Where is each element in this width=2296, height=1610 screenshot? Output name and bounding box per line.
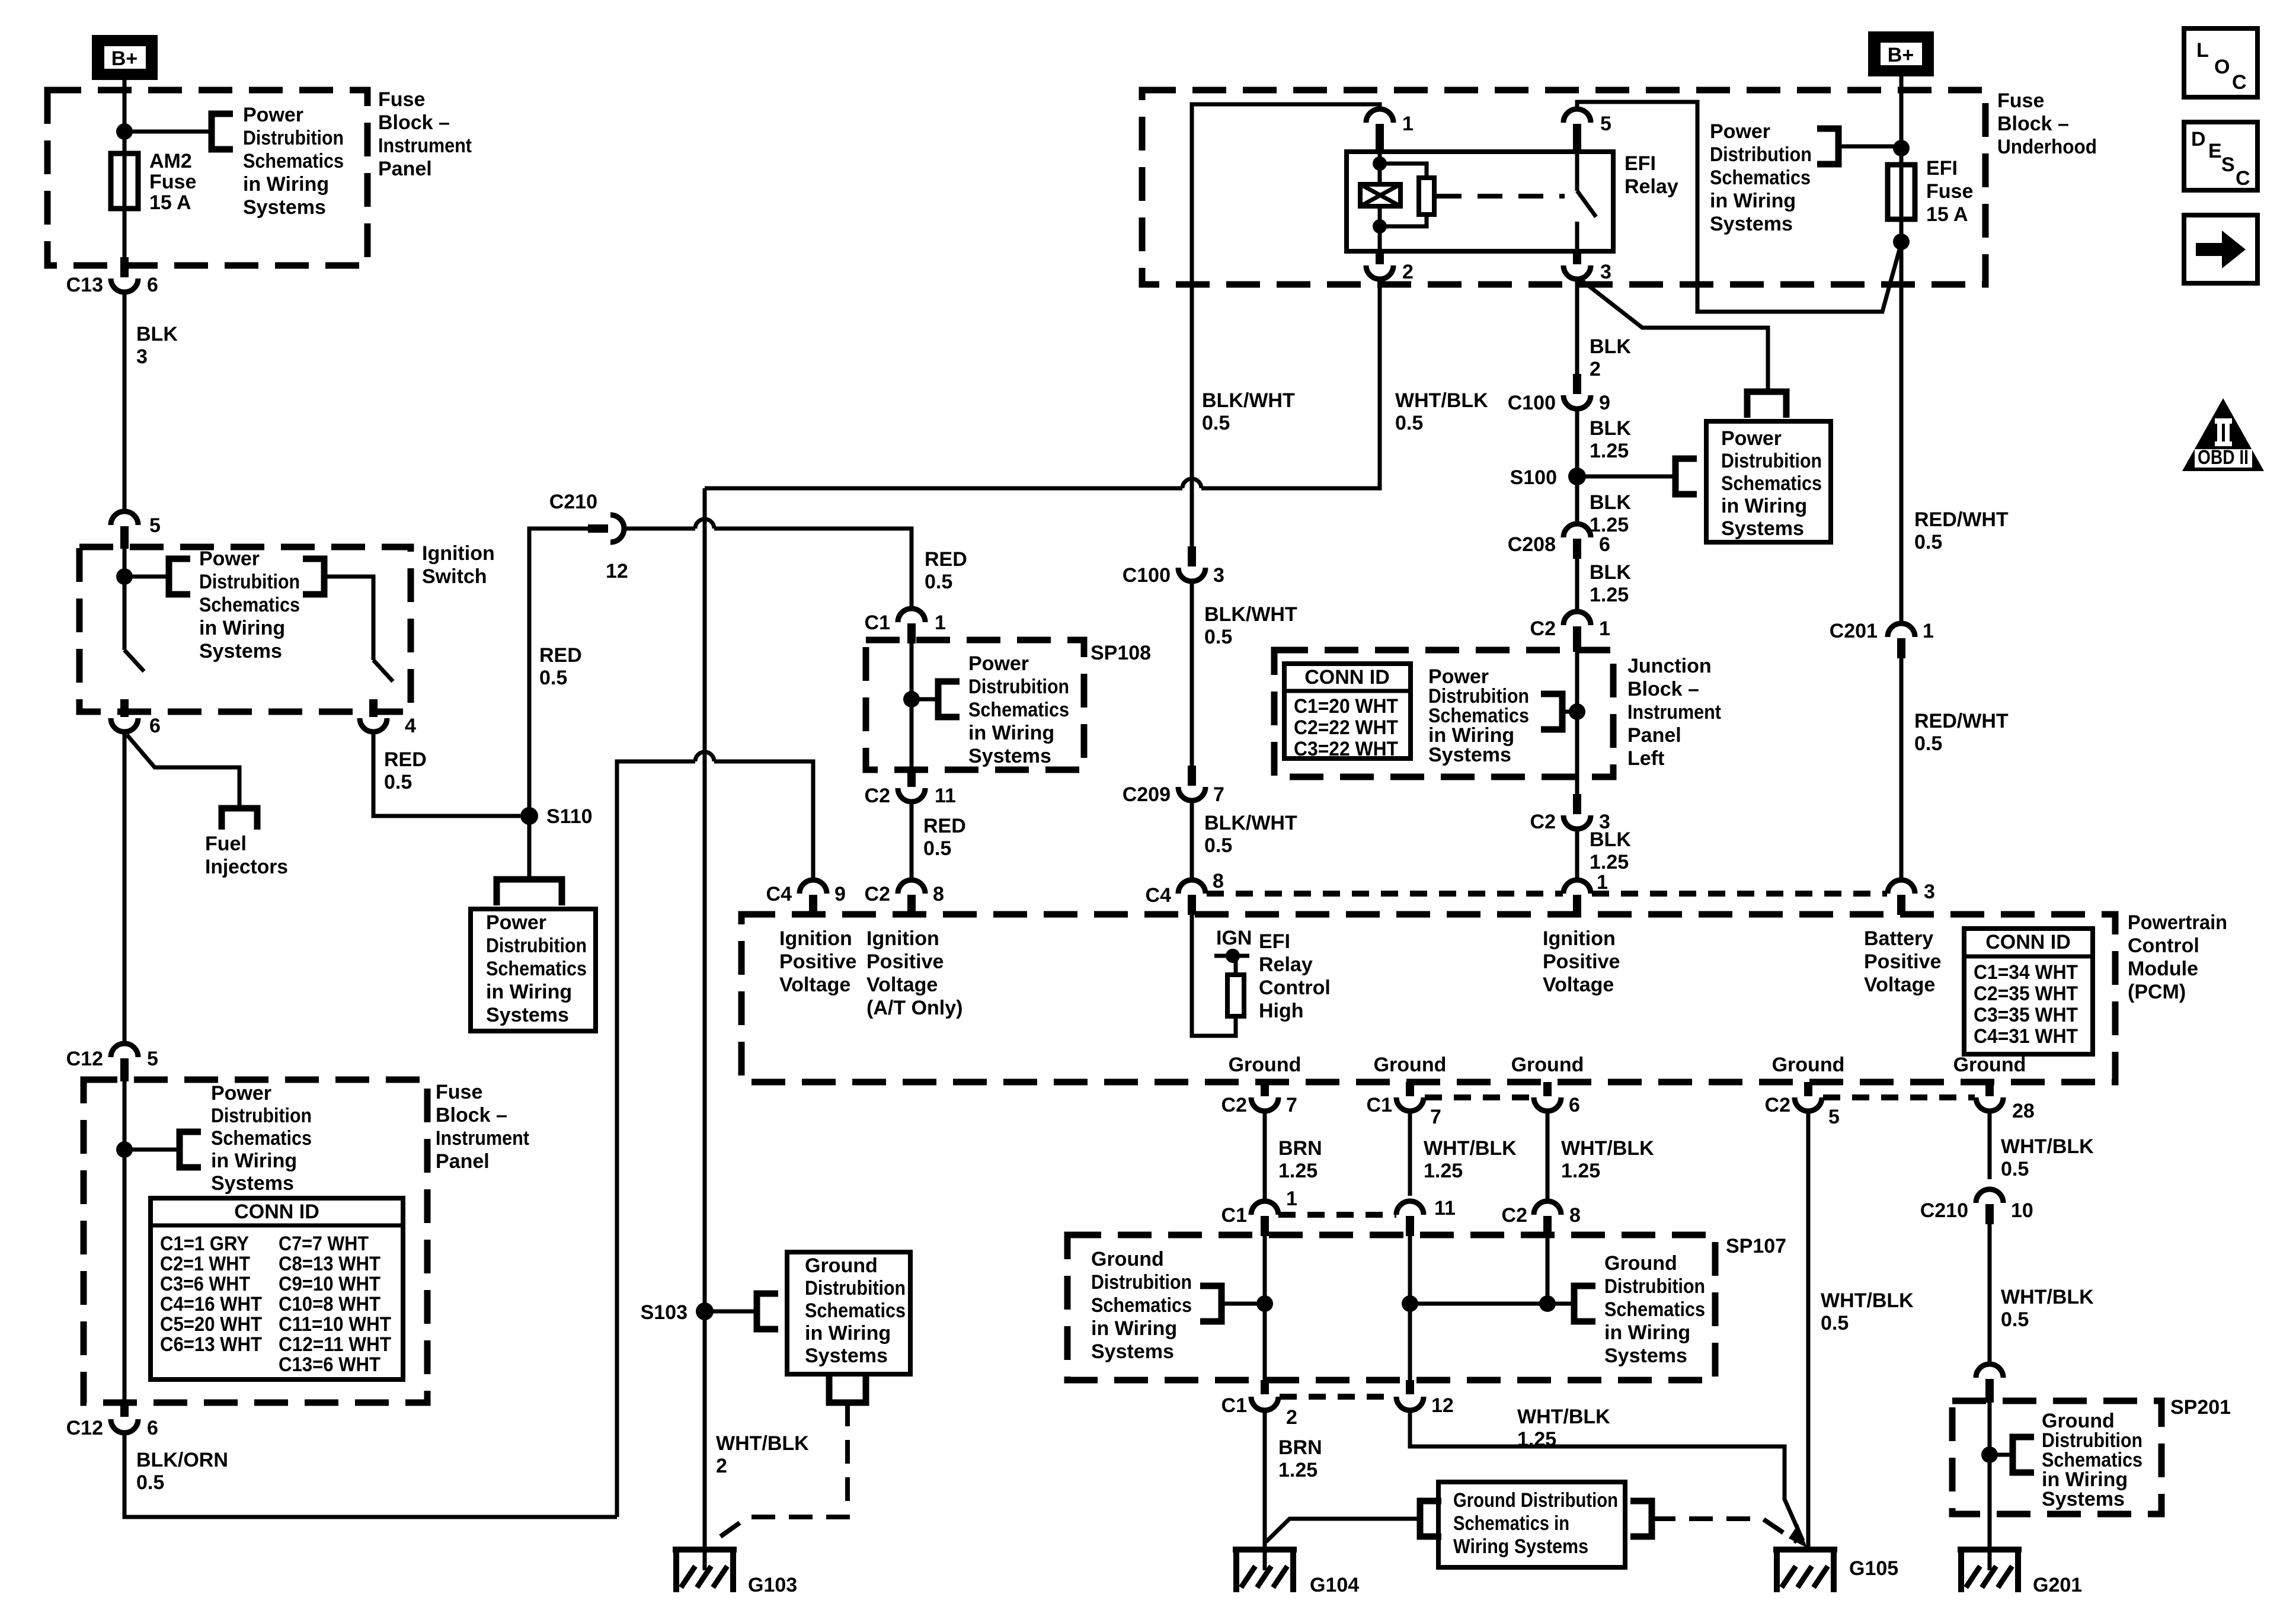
svg-text:Fuse: Fuse bbox=[378, 88, 425, 111]
svg-text:0.5: 0.5 bbox=[2001, 1308, 2029, 1331]
wire to stub bbox=[912, 697, 938, 702]
svg-text:B+: B+ bbox=[1888, 44, 1914, 66]
svg-text:Block –: Block – bbox=[436, 1104, 507, 1126]
svg-text:9: 9 bbox=[834, 883, 846, 905]
splice SP107 (dashed box) bbox=[1067, 1235, 1715, 1380]
svg-text:SP107: SP107 bbox=[1726, 1235, 1786, 1257]
wire to power distribution stub bbox=[124, 575, 169, 579]
wire WHT/BLK 1.25 from pin 6 bbox=[1546, 1111, 1550, 1202]
svg-text:Schematics: Schematics bbox=[805, 1299, 906, 1322]
svg-text:Block –: Block – bbox=[1997, 113, 2069, 135]
svg-text:Ground: Ground bbox=[1374, 1054, 1447, 1076]
svg-text:Module: Module bbox=[2128, 958, 2198, 980]
svg-text:Schematics: Schematics bbox=[243, 150, 344, 172]
svg-text:0.5: 0.5 bbox=[923, 837, 951, 860]
connector C1 pin 2 bbox=[1261, 1380, 1269, 1394]
svg-text:Fuse: Fuse bbox=[436, 1081, 482, 1103]
wire RED/WHT 0.5 to PCM pin 3 bbox=[1900, 658, 1904, 880]
svg-text:C2=1 WHT: C2=1 WHT bbox=[160, 1253, 250, 1275]
connector pin 4 ignition switch bbox=[369, 699, 378, 717]
svg-text:L: L bbox=[2196, 39, 2209, 62]
svg-text:D: D bbox=[2191, 128, 2206, 151]
svg-text:Power: Power bbox=[1721, 427, 1782, 450]
svg-text:Ground: Ground bbox=[805, 1254, 878, 1277]
svg-text:0.5: 0.5 bbox=[925, 571, 952, 593]
connector C100 pin 9 bbox=[1573, 374, 1581, 394]
svg-text:C3=22 WHT: C3=22 WHT bbox=[1294, 738, 1398, 760]
svg-text:12: 12 bbox=[1431, 1394, 1454, 1417]
svg-text:0.5: 0.5 bbox=[1204, 626, 1232, 648]
svg-text:C4: C4 bbox=[1146, 884, 1172, 907]
svg-text:C4=31 WHT: C4=31 WHT bbox=[1974, 1025, 2078, 1048]
svg-text:Power: Power bbox=[1710, 120, 1770, 143]
svg-text:1.25: 1.25 bbox=[1278, 1459, 1318, 1481]
node below EFI fuse bbox=[1893, 233, 1910, 250]
svg-text:C11=10 WHT: C11=10 WHT bbox=[279, 1313, 391, 1336]
svg-text:1.25: 1.25 bbox=[1561, 1160, 1600, 1182]
svg-text:High: High bbox=[1259, 1000, 1304, 1022]
svg-text:Schematics: Schematics bbox=[1604, 1298, 1705, 1321]
svg-text:Distrubition: Distrubition bbox=[1091, 1271, 1192, 1294]
splice S100 bbox=[1568, 468, 1586, 485]
ground distribution schematics box (S103) bbox=[787, 1252, 910, 1374]
svg-text:Systems: Systems bbox=[1091, 1340, 1174, 1363]
svg-text:Systems: Systems bbox=[805, 1345, 888, 1367]
wire BLK 2 pin 3 to C100-9 bbox=[1575, 279, 1579, 374]
svg-text:CONN ID: CONN ID bbox=[1985, 931, 2071, 953]
svg-text:WHT/BLK: WHT/BLK bbox=[1424, 1137, 1517, 1160]
ground G104 bbox=[1233, 1550, 1297, 1592]
wire BLK/ORN 0.5 bbox=[124, 1433, 617, 1517]
svg-text:Systems: Systems bbox=[243, 196, 326, 219]
svg-text:1.25: 1.25 bbox=[1590, 584, 1629, 606]
power distribution schematics stub bracket (underhood) bbox=[1817, 129, 1838, 164]
svg-text:in Wiring: in Wiring bbox=[805, 1322, 891, 1345]
svg-text:6: 6 bbox=[1599, 533, 1610, 556]
svg-text:Systems: Systems bbox=[486, 1004, 569, 1026]
svg-text:Positive: Positive bbox=[1864, 950, 1941, 973]
power distribution schematics stub bracket bbox=[212, 114, 233, 149]
svg-text:0.5: 0.5 bbox=[1395, 412, 1423, 434]
svg-text:Ground: Ground bbox=[1772, 1054, 1845, 1076]
wire node to stub bbox=[1990, 1453, 2013, 1457]
CONN ID table (fuse block) bbox=[151, 1198, 403, 1379]
svg-text:C1: C1 bbox=[865, 612, 890, 634]
PCM ground pin C2-5 bbox=[1804, 1082, 1812, 1096]
connector C12 pin 5 bbox=[111, 1044, 138, 1057]
dashed wire to G105 bbox=[1652, 1519, 1797, 1542]
svg-text:C7=7 WHT: C7=7 WHT bbox=[279, 1233, 369, 1255]
svg-text:C12: C12 bbox=[66, 1417, 103, 1439]
wire WHT/BLK 0.5 from C2-5 to G105 bbox=[1806, 1111, 1811, 1550]
svg-text:SP108: SP108 bbox=[1091, 642, 1151, 664]
svg-text:Battery: Battery bbox=[1864, 927, 1933, 950]
svg-text:C2: C2 bbox=[1765, 1094, 1790, 1116]
wire WHT/BLK 0.5 from pin 2 (hop over BLK/WHT) bbox=[1201, 279, 1380, 488]
svg-text:Systems: Systems bbox=[1604, 1345, 1687, 1367]
svg-text:2: 2 bbox=[1590, 358, 1601, 380]
power symbol B+ (left) bbox=[92, 35, 158, 80]
svg-text:1.25: 1.25 bbox=[1278, 1160, 1318, 1182]
fuel injectors stub bbox=[222, 808, 257, 830]
wire S110 up to C210 bbox=[529, 529, 590, 816]
PCM ground pin C2-7 bbox=[1261, 1082, 1269, 1096]
svg-text:Ground: Ground bbox=[1229, 1054, 1302, 1076]
svg-text:Instrument: Instrument bbox=[378, 135, 472, 157]
svg-text:EFI: EFI bbox=[1625, 152, 1656, 175]
svg-text:(A/T Only): (A/T Only) bbox=[866, 997, 962, 1019]
svg-text:in Wiring: in Wiring bbox=[1091, 1317, 1177, 1340]
svg-text:Panel: Panel bbox=[378, 158, 432, 180]
svg-text:28: 28 bbox=[2012, 1100, 2035, 1122]
connector C210 pin 12 bbox=[588, 524, 608, 533]
connector pin 12 bbox=[1406, 1380, 1414, 1394]
svg-text:in Wiring: in Wiring bbox=[243, 173, 329, 196]
powertrain control module PCM (dashed box) bbox=[741, 914, 2115, 1082]
connector C2 pin 1 (junction block) bbox=[1563, 612, 1591, 625]
svg-text:in Wiring: in Wiring bbox=[968, 722, 1054, 744]
svg-text:C2: C2 bbox=[1221, 1094, 1247, 1116]
svg-text:Instrument: Instrument bbox=[1627, 701, 1721, 724]
svg-text:Voltage: Voltage bbox=[866, 974, 938, 996]
wire S110 down to power distribution box bbox=[527, 816, 532, 879]
power distribution stub bracket (FB2) bbox=[180, 1132, 201, 1167]
svg-text:Positive: Positive bbox=[866, 950, 944, 973]
PCM pin C2-8 bbox=[898, 880, 925, 894]
svg-text:3: 3 bbox=[1600, 261, 1611, 283]
svg-text:1: 1 bbox=[1599, 617, 1610, 640]
svg-text:Distrubition: Distrubition bbox=[211, 1105, 312, 1127]
wire inside junction block bbox=[1575, 646, 1579, 777]
svg-text:Wiring Systems: Wiring Systems bbox=[1453, 1535, 1588, 1558]
svg-text:G105: G105 bbox=[1849, 1557, 1898, 1580]
relay switch output wire bbox=[1575, 222, 1579, 251]
PCM ground pin 28 bbox=[1985, 1082, 1994, 1096]
svg-text:C2: C2 bbox=[1502, 1204, 1527, 1227]
svg-text:Power: Power bbox=[199, 548, 260, 570]
svg-text:BLK: BLK bbox=[1590, 335, 1631, 358]
svg-text:in Wiring: in Wiring bbox=[486, 981, 572, 1003]
svg-text:Schematics: Schematics bbox=[1710, 167, 1811, 189]
wire S100 to power distribution stub bbox=[1577, 475, 1675, 479]
fuse block - instrument panel (dashed box) bbox=[47, 90, 367, 265]
wire junction node to stub bbox=[1562, 710, 1577, 714]
svg-text:Distrubition: Distrubition bbox=[805, 1277, 906, 1299]
svg-text:BLK/ORN: BLK/ORN bbox=[136, 1449, 228, 1471]
svg-text:Fuse: Fuse bbox=[1997, 89, 2044, 112]
svg-text:S103: S103 bbox=[641, 1301, 687, 1324]
svg-text:8: 8 bbox=[933, 883, 944, 905]
svg-text:Switch: Switch bbox=[422, 565, 487, 588]
wire relay pin 1 up-left to BLK/WHT drop bbox=[1192, 104, 1380, 546]
svg-text:2: 2 bbox=[1286, 1406, 1297, 1429]
connector C2 pin 11 bbox=[907, 767, 916, 787]
svg-text:C209: C209 bbox=[1123, 783, 1171, 806]
wire C210 to C1 (hop over S103 wire) bbox=[624, 527, 695, 531]
wire 8 into SP107 bbox=[1546, 1236, 1550, 1304]
svg-text:C: C bbox=[2232, 71, 2247, 94]
svg-text:SP201: SP201 bbox=[2170, 1396, 2231, 1419]
svg-text:Schematics: Schematics bbox=[1721, 472, 1822, 495]
svg-text:Systems: Systems bbox=[1428, 744, 1511, 766]
svg-text:0.5: 0.5 bbox=[1204, 834, 1232, 857]
EFI relay box bbox=[1347, 152, 1613, 251]
svg-text:EFI: EFI bbox=[1259, 930, 1290, 953]
svg-text:C13: C13 bbox=[66, 274, 103, 296]
wire BLK 3 bbox=[123, 292, 127, 510]
switch blade left bbox=[124, 650, 144, 671]
svg-text:0.5: 0.5 bbox=[2001, 1158, 2029, 1180]
power distribution stub bracket (junction) bbox=[1541, 694, 1562, 729]
connector pin 11 (SP107) bbox=[1396, 1201, 1424, 1215]
relay pin 5 bbox=[1563, 109, 1591, 123]
connector pin 5 ignition switch bbox=[111, 511, 138, 525]
svg-text:AM2: AM2 bbox=[149, 150, 192, 172]
PCM pin 1 (ignition positive voltage) bbox=[1563, 880, 1591, 894]
svg-text:C1=34 WHT: C1=34 WHT bbox=[1974, 961, 2078, 984]
PCM pin 3 (battery positive voltage) bbox=[1888, 880, 1915, 894]
splice S103 bbox=[696, 1302, 714, 1320]
connector C208 pin 6 bbox=[1563, 524, 1591, 537]
svg-text:Ground Distribution: Ground Distribution bbox=[1453, 1489, 1618, 1512]
svg-text:Schematics: Schematics bbox=[199, 594, 300, 616]
connector C210 pin 10 bbox=[1976, 1189, 2003, 1203]
OBD II symbol bbox=[2182, 398, 2264, 471]
relay coil node bottom bbox=[1373, 219, 1387, 233]
svg-text:C2=35 WHT: C2=35 WHT bbox=[1974, 982, 2078, 1005]
SP107 internal wire bbox=[1410, 1302, 1574, 1306]
svg-text:Power: Power bbox=[211, 1082, 271, 1105]
svg-text:4: 4 bbox=[405, 715, 416, 737]
node power distribution stub bbox=[1893, 140, 1910, 156]
svg-text:C1: C1 bbox=[1221, 1394, 1247, 1417]
svg-text:Distrubition: Distrubition bbox=[243, 127, 344, 149]
svg-text:Relay: Relay bbox=[1625, 175, 1678, 198]
svg-text:C8=13 WHT: C8=13 WHT bbox=[279, 1253, 380, 1275]
wire BRN 1.25 to G104 bbox=[1263, 1410, 1267, 1570]
node fuse block 2 bbox=[116, 1141, 133, 1158]
svg-text:C12: C12 bbox=[66, 1048, 103, 1070]
svg-text:in Wiring: in Wiring bbox=[211, 1150, 297, 1172]
svg-text:(PCM): (PCM) bbox=[2128, 981, 2186, 1003]
node SP201 bbox=[1981, 1446, 1998, 1463]
wire WHT/BLK 1.25 from C1-7 bbox=[1408, 1111, 1412, 1196]
svg-text:Powertrain: Powertrain bbox=[2128, 911, 2227, 934]
svg-text:1.25: 1.25 bbox=[1590, 851, 1629, 873]
relay pin 3 bbox=[1573, 251, 1581, 264]
switch blade right bbox=[373, 660, 393, 681]
svg-text:WHT/BLK: WHT/BLK bbox=[1561, 1137, 1654, 1160]
svg-text:6: 6 bbox=[147, 1417, 158, 1439]
svg-text:RED: RED bbox=[384, 748, 427, 771]
power distribution stub bracket SP108 bbox=[938, 681, 960, 717]
svg-text:C3=6 WHT: C3=6 WHT bbox=[160, 1273, 250, 1295]
connector C12 pin 6 bbox=[120, 1403, 129, 1417]
svg-text:0.5: 0.5 bbox=[1914, 732, 1942, 755]
fuse EFI 15A bbox=[1888, 165, 1915, 219]
svg-text:Distrubition: Distrubition bbox=[486, 934, 587, 957]
svg-text:WHT/BLK: WHT/BLK bbox=[1395, 389, 1488, 412]
svg-text:WHT/BLK: WHT/BLK bbox=[1517, 1406, 1610, 1428]
svg-text:6: 6 bbox=[149, 715, 161, 737]
svg-text:BLK: BLK bbox=[1590, 417, 1631, 440]
svg-text:C2: C2 bbox=[865, 883, 890, 905]
svg-text:BLK: BLK bbox=[1590, 828, 1631, 851]
svg-text:BRN: BRN bbox=[1278, 1137, 1322, 1160]
svg-text:in Wiring: in Wiring bbox=[1710, 190, 1796, 212]
svg-text:in Wiring: in Wiring bbox=[1721, 495, 1807, 517]
svg-text:5: 5 bbox=[1600, 113, 1611, 135]
svg-text:Ground: Ground bbox=[1511, 1054, 1584, 1076]
wire through SP201 bbox=[1988, 1401, 1992, 1570]
relay coil wire bottom bbox=[1378, 206, 1382, 251]
wire pin 6 down to C12 bbox=[123, 732, 127, 1043]
bracket above power distribution box (pin 3) bbox=[1747, 392, 1786, 418]
node SP108 bbox=[903, 691, 920, 708]
connector C100 pin 3 bbox=[1188, 546, 1196, 566]
svg-text:Ground: Ground bbox=[1091, 1248, 1164, 1270]
svg-text:E: E bbox=[2208, 140, 2222, 162]
connector into SP201 bbox=[1976, 1364, 2003, 1378]
wire through fuse block bbox=[123, 1078, 127, 1403]
svg-text:0.5: 0.5 bbox=[1202, 412, 1230, 434]
junction block - instrument panel left (dashed box) bbox=[1274, 650, 1613, 777]
svg-text:1: 1 bbox=[1402, 113, 1414, 135]
svg-text:Ignition: Ignition bbox=[422, 542, 495, 565]
svg-text:Positive: Positive bbox=[1543, 950, 1620, 973]
connector C201 pin 1 bbox=[1888, 623, 1915, 637]
power distribution schematics box (S100) bbox=[1706, 421, 1831, 542]
wire WHT/BLK 1.25 from 12 to G105 bbox=[1410, 1410, 1803, 1541]
svg-text:Schematics: Schematics bbox=[1091, 1294, 1192, 1317]
svg-text:C210: C210 bbox=[549, 491, 597, 513]
svg-text:1: 1 bbox=[1923, 620, 1934, 642]
EFI relay control high resistor bbox=[1192, 914, 1236, 1036]
svg-text:Schematics in: Schematics in bbox=[1453, 1512, 1569, 1535]
svg-text:CONN ID: CONN ID bbox=[1304, 666, 1390, 689]
svg-text:Ignition: Ignition bbox=[779, 927, 852, 950]
svg-text:Injectors: Injectors bbox=[205, 856, 288, 878]
wire node to stub bbox=[124, 1148, 180, 1152]
wire RED 0.5 from pin 4 to S110 bbox=[373, 732, 520, 816]
relay coil wire bbox=[1378, 152, 1382, 184]
svg-text:Schematics: Schematics bbox=[211, 1127, 312, 1150]
wire stub to B+ wire bbox=[1838, 145, 1901, 149]
svg-text:Distrubition: Distrubition bbox=[199, 571, 300, 593]
bracket S100 stub bbox=[1675, 459, 1697, 494]
svg-text:Panel: Panel bbox=[1627, 724, 1681, 747]
svg-text:Ground: Ground bbox=[1953, 1054, 2026, 1076]
svg-text:Instrument: Instrument bbox=[436, 1127, 529, 1150]
power symbol B+ (right) bbox=[1868, 31, 1934, 76]
wire branch to fuel injectors bbox=[127, 735, 239, 808]
svg-text:7: 7 bbox=[1430, 1106, 1441, 1128]
wire BLK 1.25 to PCM pin 1 bbox=[1575, 829, 1579, 880]
bracket below ground distribution box bbox=[829, 1377, 866, 1403]
ignition switch (dashed box) bbox=[79, 547, 411, 712]
dashed link C1-2 to 12 bbox=[1280, 1394, 1395, 1400]
svg-text:BLK/WHT: BLK/WHT bbox=[1202, 389, 1295, 412]
svg-text:BLK/WHT: BLK/WHT bbox=[1204, 603, 1297, 626]
dashed wire to G103 bbox=[711, 1403, 848, 1543]
splice SP108 (dashed box) bbox=[866, 640, 1084, 770]
node on 11 wire bbox=[1402, 1295, 1418, 1312]
svg-text:7: 7 bbox=[1213, 783, 1224, 806]
svg-text:C1=1 GRY: C1=1 GRY bbox=[160, 1233, 249, 1255]
svg-text:5: 5 bbox=[149, 514, 161, 537]
svg-text:1: 1 bbox=[1597, 871, 1608, 894]
svg-text:C100: C100 bbox=[1508, 392, 1556, 414]
wire to switch contact 2 bbox=[324, 577, 373, 660]
svg-text:6: 6 bbox=[1569, 1094, 1580, 1116]
svg-text:Voltage: Voltage bbox=[1864, 974, 1935, 996]
wire WHT/BLK 0.5 from pin 28 bbox=[1988, 1111, 1992, 1179]
svg-text:Ignition: Ignition bbox=[1543, 927, 1616, 950]
fuse block - underhood (dashed box) bbox=[1142, 90, 1985, 284]
wire BLK 1.25 bbox=[1575, 409, 1579, 476]
svg-text:OBD II: OBD II bbox=[2198, 446, 2249, 469]
svg-text:B+: B+ bbox=[111, 47, 137, 70]
node on 8 wire bbox=[1539, 1295, 1556, 1312]
wire relay pin 5 up-right-down to EFI fuse bbox=[1577, 102, 1901, 312]
svg-text:BRN: BRN bbox=[1278, 1436, 1322, 1459]
svg-text:Junction: Junction bbox=[1627, 655, 1712, 677]
svg-text:C4=16 WHT: C4=16 WHT bbox=[160, 1293, 262, 1315]
svg-text:S: S bbox=[2221, 153, 2235, 176]
connector C2 pin 3 bbox=[1573, 794, 1581, 814]
ground distribution stub bracket (S103) bbox=[757, 1294, 778, 1329]
svg-text:Power: Power bbox=[243, 104, 303, 126]
svg-text:Systems: Systems bbox=[199, 640, 282, 662]
svg-text:BLK/WHT: BLK/WHT bbox=[1204, 812, 1297, 834]
connector C1 pin 1 bbox=[898, 609, 925, 622]
ground distribution schematics box (bottom) bbox=[1438, 1482, 1625, 1567]
wire to power distribution stub bbox=[124, 130, 212, 134]
wire horizontal to C4-9 (hop over S103 wire) bbox=[617, 761, 695, 1517]
power distribution schematics stub bracket bbox=[169, 559, 190, 594]
bracket right stub SP107 bbox=[1574, 1286, 1595, 1321]
LOC legend box bbox=[2184, 28, 2257, 97]
svg-text:O: O bbox=[2214, 56, 2230, 78]
svg-text:C210: C210 bbox=[1920, 1199, 1968, 1222]
svg-text:C201: C201 bbox=[1830, 620, 1878, 642]
svg-text:C3=35 WHT: C3=35 WHT bbox=[1974, 1004, 2078, 1026]
svg-text:BLK: BLK bbox=[1590, 561, 1631, 584]
svg-text:Distribution: Distribution bbox=[1710, 143, 1812, 166]
CONN ID table (junction block) bbox=[1284, 664, 1411, 758]
svg-text:Control: Control bbox=[2128, 934, 2199, 957]
node on B+ wire bbox=[116, 123, 133, 140]
svg-text:C1: C1 bbox=[1367, 1094, 1392, 1116]
bracket right (bottom box) bbox=[1630, 1501, 1652, 1537]
svg-text:C2: C2 bbox=[865, 785, 890, 807]
svg-text:15 A: 15 A bbox=[149, 191, 191, 214]
relay resistor element bbox=[1380, 164, 1427, 178]
dashed link C1-1 to 11 bbox=[1278, 1212, 1396, 1218]
svg-text:RED/WHT: RED/WHT bbox=[1914, 710, 2009, 732]
wire bottom box to G104 bbox=[1266, 1519, 1420, 1542]
svg-text:0.5: 0.5 bbox=[1821, 1312, 1849, 1334]
svg-text:Left: Left bbox=[1627, 747, 1664, 770]
DESC legend box bbox=[2184, 122, 2257, 190]
svg-text:1.25: 1.25 bbox=[1517, 1428, 1556, 1451]
svg-text:C1: C1 bbox=[1221, 1204, 1247, 1227]
svg-text:C2=22 WHT: C2=22 WHT bbox=[1294, 716, 1398, 739]
svg-text:0.5: 0.5 bbox=[539, 667, 567, 689]
svg-text:WHT/BLK: WHT/BLK bbox=[1821, 1289, 1914, 1312]
svg-text:9: 9 bbox=[1599, 392, 1610, 414]
wire B+ to AM2 fuse bbox=[123, 80, 127, 265]
